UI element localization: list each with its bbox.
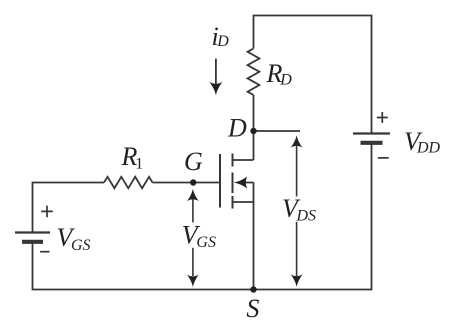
battery VGS short plate (22, 240, 43, 244)
transistor Q1 channel bottom segment (232, 196, 234, 209)
wire left upper: from VGS battery up and right to R1 (33, 183, 105, 232)
svg-text:GS: GS (71, 237, 91, 254)
resistor RD (248, 49, 260, 96)
arrowhead Q1 body arrow (left) (234, 177, 247, 189)
transistor Q1 channel middle segment (232, 173, 234, 194)
arrow iD shaft (215, 59, 217, 87)
minus sign VDD (378, 157, 389, 159)
node G junction dot (190, 179, 196, 185)
arrow VGS shaft upper (192, 199, 194, 222)
svg-text:DD: DD (416, 139, 441, 156)
svg-text:1: 1 (135, 155, 143, 172)
arrow VDS shaft upper (296, 146, 298, 196)
node S junction dot (250, 286, 256, 292)
transistor Q1 channel top segment (232, 154, 234, 167)
svg-text:D: D (279, 71, 292, 88)
svg-text:D: D (216, 33, 229, 50)
wire source to bottom rail (253, 183, 255, 290)
arrow VDS shaft lower (296, 222, 298, 276)
wire node D to right (VDS reference) (254, 130, 301, 132)
arrow VGS shaft lower (192, 248, 194, 276)
transistor Q1 source tap (233, 201, 254, 203)
wire RD bottom lead to node D (253, 95, 255, 131)
svg-text:G: G (184, 147, 203, 176)
minus sign VGS (40, 251, 49, 253)
arrowhead VDS down (291, 274, 303, 287)
wire R1 to gate (153, 182, 221, 184)
svg-text:DS: DS (296, 208, 317, 225)
battery VDD short plate (361, 141, 383, 145)
transistor Q1 drain tap (233, 159, 254, 161)
plus sign VDD (377, 112, 388, 123)
svg-text:D: D (227, 113, 247, 142)
arrowhead iD (down) (209, 82, 223, 96)
wire drain tap to node D (253, 131, 255, 160)
plus sign VGS (41, 206, 53, 218)
wire top loop: RD lead, top wire, right upper to VDD battery (254, 16, 372, 133)
wire bottom loop: VGS battery down, bottom rail, up to VDD battery (33, 143, 372, 290)
transistor Q1 gate line (219, 154, 221, 208)
svg-text:S: S (246, 294, 259, 321)
arrowhead VGS down (187, 275, 199, 288)
transistor Q1 body connection wire (245, 182, 254, 184)
arrowhead VGS up (187, 189, 199, 202)
battery VGS long plate (15, 231, 50, 233)
svg-text:GS: GS (196, 234, 216, 251)
resistor R1 (104, 177, 153, 188)
battery VDD long plate (353, 132, 390, 134)
node D junction dot (250, 128, 256, 134)
arrowhead VDS up (291, 135, 303, 148)
